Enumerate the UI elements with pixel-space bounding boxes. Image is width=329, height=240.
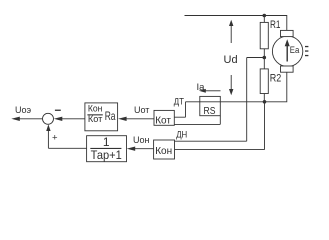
svg-text:Ra: Ra	[105, 109, 116, 123]
svg-text:Ud: Ud	[224, 54, 238, 66]
svg-text:Кот: Кот	[88, 114, 103, 124]
svg-text:+: +	[52, 132, 58, 143]
svg-text:Кон: Кон	[155, 146, 172, 157]
svg-text:R1: R1	[270, 19, 281, 31]
svg-text:R2: R2	[270, 72, 282, 84]
svg-text:Ea: Ea	[290, 45, 300, 56]
svg-text:ДТ: ДТ	[174, 97, 184, 108]
svg-text:ДН: ДН	[176, 129, 187, 140]
svg-text:Uон: Uон	[133, 135, 150, 145]
svg-text:Uот: Uот	[134, 105, 149, 115]
svg-text:Ia: Ia	[197, 82, 206, 93]
svg-text:RS: RS	[204, 106, 216, 117]
svg-text:Кот: Кот	[155, 116, 171, 127]
svg-text:Uоэ: Uоэ	[15, 105, 32, 115]
svg-text:Тар+1: Тар+1	[91, 148, 122, 162]
svg-text:Кон: Кон	[88, 103, 103, 113]
